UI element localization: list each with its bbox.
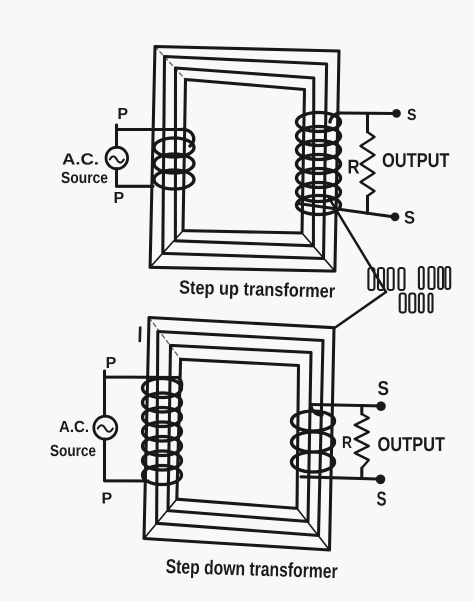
- label S bottom (top transformer): [405, 211, 415, 224]
- terminal dot S top (top transformer): [392, 109, 401, 118]
- wire secondary top to S (bottom transformer): [311, 405, 378, 406]
- label S top (bottom transformer): [378, 381, 388, 395]
- tilde in AC source (bottom): [98, 425, 113, 432]
- wire P2 top (bottom transformer): [105, 371, 179, 416]
- label R (bottom transformer): [343, 436, 352, 448]
- resistor R branch wires (top transformer): [366, 114, 369, 214]
- label Source (bottom): [50, 445, 95, 456]
- pointer line segment A: [329, 198, 386, 292]
- core top corner seam BR: [302, 233, 335, 271]
- wire secondary bottom to S (bottom transformer): [301, 477, 378, 479]
- wire P1 bottom (top transformer): [117, 169, 154, 187]
- core bottom corner seam TL: [149, 318, 181, 360]
- label Source (top): [61, 172, 107, 183]
- resistor R zigzag (bottom transformer): [355, 414, 369, 468]
- core top transformer rect 2: [163, 57, 327, 259]
- secondary coil S2 (bottom transformer, 3 turns): [292, 405, 335, 473]
- core bottom transformer rect outer: [144, 318, 334, 551]
- resistor R zigzag (top transformer): [361, 132, 375, 196]
- wire secondary bottom to S (top transformer): [298, 204, 391, 217]
- core top corner seam BL: [150, 231, 183, 268]
- AC source circle (bottom): [94, 416, 117, 439]
- wire secondary top to S (top transformer): [340, 111, 392, 115]
- label A.C. (top): [63, 153, 98, 164]
- label S bottom (bottom transformer): [377, 492, 386, 506]
- primary coil L1 (top transformer, 3 turns): [154, 129, 194, 189]
- label R (top transformer): [349, 160, 360, 174]
- label S top (top transformer): [407, 109, 416, 120]
- core top transformer rect 3: [175, 68, 313, 246]
- label P top (top transformer): [119, 108, 128, 119]
- label A.C. (bottom): [59, 421, 88, 432]
- label Step down transformer: [166, 559, 338, 583]
- label OUTPUT (bottom transformer): [378, 437, 445, 451]
- core bottom transformer rect 2: [157, 332, 323, 536]
- core bottom corner seam BL: [144, 499, 177, 538]
- label Step up transformer: [179, 280, 335, 302]
- core bottom corner seam BR: [297, 508, 330, 550]
- AC source circle (top): [106, 147, 128, 169]
- primary coil L2 (bottom transformer, 7 turns): [143, 378, 182, 485]
- flux marks row1 group1: [368, 268, 404, 290]
- label P bottom (top transformer): [115, 192, 124, 203]
- label I (bottom transformer): [139, 328, 142, 342]
- core bottom transformer rect 3: [168, 345, 311, 521]
- terminal dot S bottom (bottom transformer): [376, 475, 386, 485]
- wire P2 bottom (bottom transformer): [105, 439, 149, 481]
- wire P1 top (top transformer): [117, 125, 182, 148]
- terminal dot S bottom (top transformer): [391, 212, 400, 221]
- terminal dot S top (bottom transformer): [376, 401, 386, 411]
- core top transformer rect outer: [150, 47, 339, 272]
- flux marks row2: [400, 294, 433, 313]
- label OUTPUT (top transformer): [383, 153, 450, 167]
- core top corner seam TL: [155, 47, 186, 80]
- label P bottom (bottom transformer): [103, 493, 112, 504]
- tilde in AC source (top): [110, 156, 124, 162]
- flux marks row1 group2: [419, 267, 450, 289]
- core bottom transformer rect inner: [177, 359, 299, 508]
- pointer line segment B: [335, 292, 387, 328]
- core top transformer rect inner: [183, 80, 305, 234]
- label P top (bottom transformer): [107, 357, 116, 368]
- resistor R branch wires (bottom transformer): [360, 406, 363, 478]
- secondary coil S1 (top transformer, 7 turns): [297, 113, 341, 215]
